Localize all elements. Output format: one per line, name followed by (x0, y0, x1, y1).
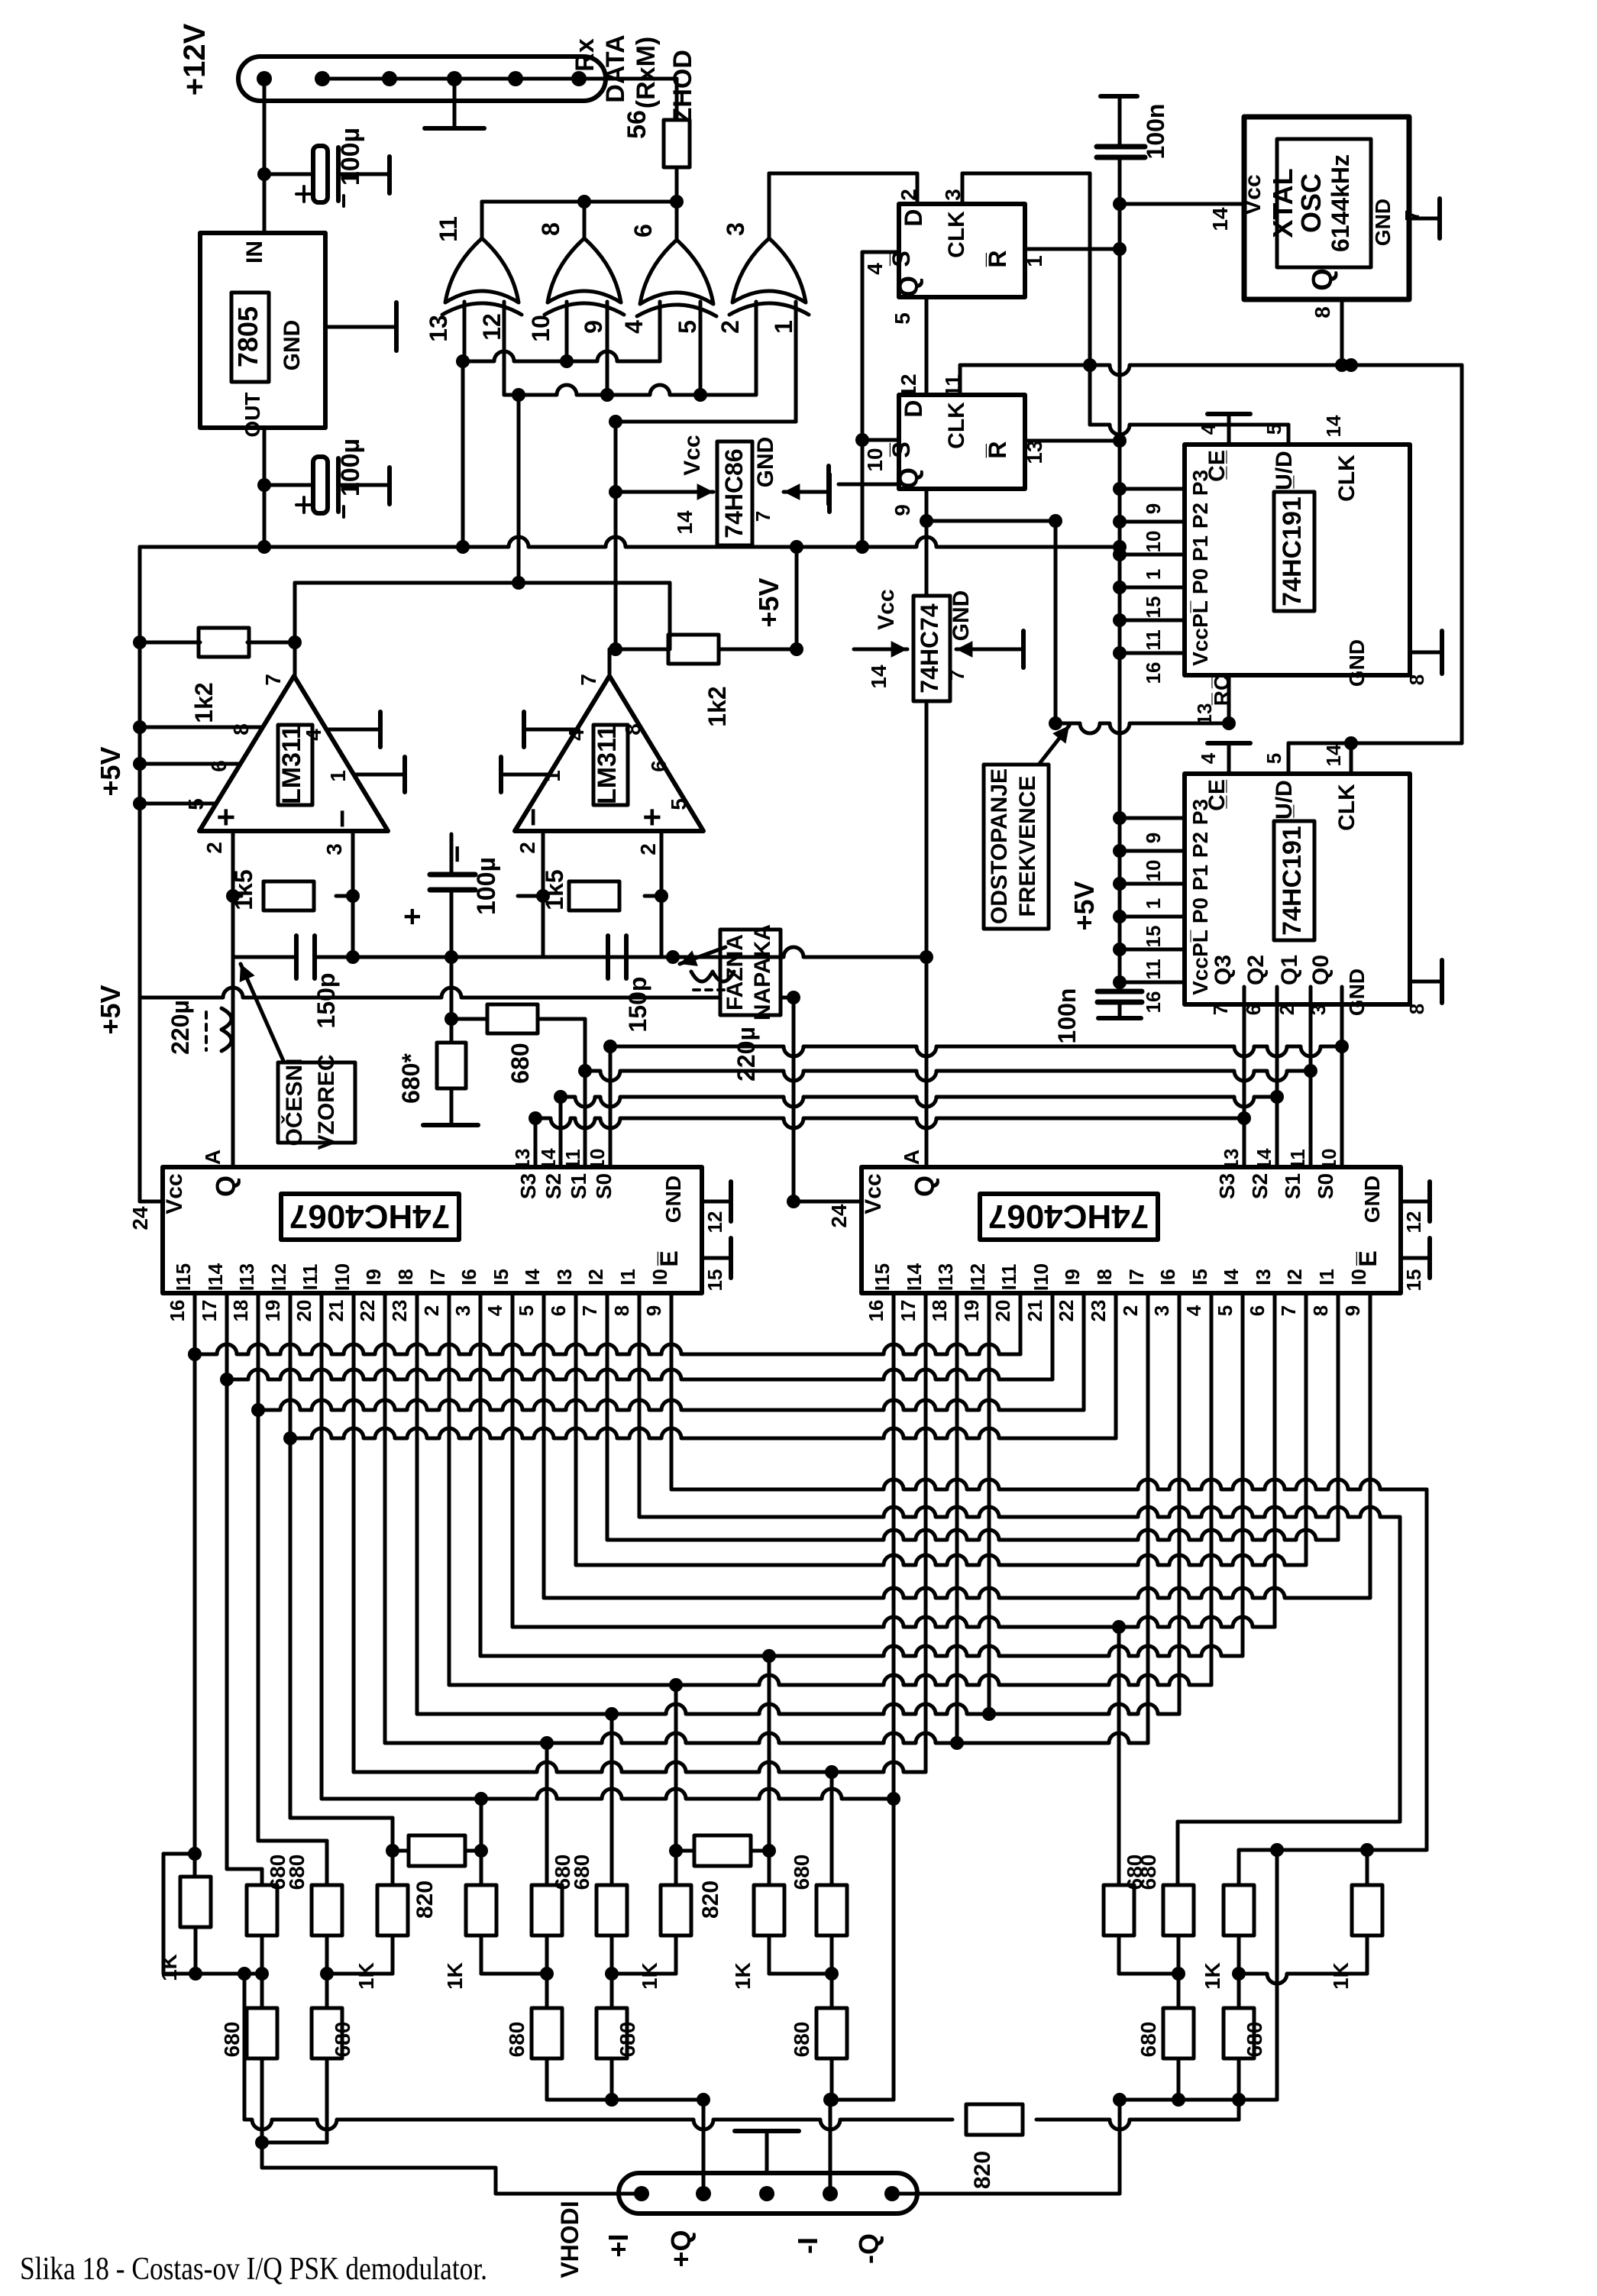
resistor 680 (532, 1885, 562, 1935)
svg-text:1K: 1K (443, 1962, 467, 1990)
svg-text:CLK: CLK (944, 402, 969, 449)
wire XTAL Q out (1340, 299, 1344, 365)
svg-text:+: + (396, 907, 429, 925)
svg-text:I9: I9 (362, 1269, 385, 1285)
svg-text:I3: I3 (1252, 1269, 1275, 1285)
ground (810, 490, 829, 494)
svg-text:6144kHz: 6144kHz (1327, 154, 1354, 252)
resistor 1K (754, 1885, 784, 1935)
svg-text:S̅: S̅ (887, 441, 915, 458)
svg-text:GND: GND (1360, 1175, 1384, 1223)
svg-text:5: 5 (891, 312, 914, 325)
svg-text:U̲/D: U̲/D (1272, 780, 1297, 820)
svg-text:E̅: E̅ (655, 1250, 683, 1266)
svg-text:100n: 100n (1053, 988, 1081, 1044)
multiplexer 74HC4067 (163, 1167, 702, 1293)
svg-text:7: 7 (946, 670, 968, 681)
wire mesh line p5 (354, 1762, 926, 1772)
wire S/CLK feed U8 (1344, 736, 1358, 750)
wire clock to U8 (1460, 365, 1464, 743)
resistor R5 680* with ground (437, 1043, 466, 1088)
svg-text:VHODI: VHODI (556, 2201, 584, 2278)
svg-text:Vcc: Vcc (874, 589, 899, 629)
svg-text:10: 10 (863, 448, 887, 471)
svg-text:13: 13 (425, 315, 452, 342)
svg-text:I0: I0 (648, 1269, 671, 1285)
svg-text:I14: I14 (204, 1263, 227, 1291)
svg-text:680: 680 (505, 2022, 529, 2058)
svg-text:24: 24 (128, 1206, 152, 1230)
svg-text:14: 14 (867, 665, 891, 689)
svg-text:1k2: 1k2 (703, 686, 731, 726)
svg-text:PL̅: PL̅ (1188, 600, 1212, 628)
svg-text:10: 10 (1142, 531, 1165, 553)
CE enable bars (1227, 414, 1231, 445)
svg-text:150p: 150p (624, 977, 651, 1033)
svg-text:GND: GND (661, 1175, 685, 1223)
svg-text:2: 2 (716, 320, 744, 334)
svg-text:+5V: +5V (753, 577, 784, 627)
svg-text:11: 11 (1142, 959, 1165, 980)
svg-text:680*: 680* (397, 1053, 425, 1104)
svg-text:18: 18 (229, 1300, 252, 1322)
svg-text:3: 3 (722, 222, 749, 236)
wire Rx data (579, 77, 677, 81)
svg-text:23: 23 (388, 1300, 411, 1322)
svg-text:3: 3 (322, 843, 346, 855)
svg-text:OSC: OSC (1295, 173, 1327, 233)
svg-text:4: 4 (863, 263, 887, 275)
svg-text:56: 56 (622, 110, 651, 139)
svg-text:Q3: Q3 (1211, 955, 1236, 985)
svg-text:820: 820 (970, 2151, 995, 2189)
svg-text:I4: I4 (1220, 1269, 1243, 1285)
svg-text:S3: S3 (516, 1173, 540, 1199)
wire drop to -Q node (1275, 1850, 1279, 2100)
svg-text:220µ: 220µ (732, 1027, 760, 1082)
svg-text:P1: P1 (1188, 535, 1212, 561)
counter 74HC191 (1185, 774, 1410, 1004)
wire +Q output network (545, 2058, 549, 2100)
svg-text:Vcc: Vcc (1240, 174, 1266, 215)
svg-text:Vcc: Vcc (162, 1173, 187, 1214)
svg-text:8: 8 (1311, 306, 1334, 319)
svg-text:3: 3 (451, 1305, 474, 1316)
svg-text:+5V: +5V (1068, 881, 1100, 930)
svg-text:17: 17 (198, 1300, 221, 1322)
wire input bus (244, 2120, 952, 2129)
ground (338, 173, 390, 176)
resistor 680 (1224, 2008, 1254, 2058)
svg-text:CLK: CLK (1334, 784, 1359, 831)
resistor 680 (1163, 1885, 1194, 1935)
svg-text:I8: I8 (1093, 1269, 1116, 1285)
svg-text:150p: 150p (312, 973, 340, 1029)
svg-text:U̲/D: U̲/D (1272, 451, 1297, 490)
svg-text:74HC86: 74HC86 (720, 448, 748, 538)
wire mesh line p15 (671, 1479, 1427, 1489)
capacitor C4 150p (231, 896, 235, 957)
svg-text:3: 3 (1150, 1305, 1173, 1316)
resistor R9 820 (676, 1849, 769, 1853)
svg-text:I13: I13 (235, 1263, 258, 1291)
xor gate 74HC86 out 11 (445, 238, 519, 302)
svg-text:1: 1 (1142, 898, 1165, 909)
resistor 1K (180, 1877, 211, 1927)
svg-text:Vcc: Vcc (861, 1173, 886, 1214)
svg-text:OČESNI: OČESNI (281, 1058, 307, 1146)
oscillator U4 XTAL OSC 6144kHz (1244, 117, 1409, 299)
svg-text:24: 24 (827, 1204, 851, 1228)
svg-text:8: 8 (610, 1305, 633, 1316)
svg-text:680: 680 (285, 1855, 309, 1890)
svg-text:I7: I7 (426, 1269, 449, 1285)
wire sample bus I1 (227, 1370, 1052, 1379)
wire right drop 1 (1425, 1489, 1429, 1850)
svg-text:14: 14 (1322, 744, 1345, 766)
svg-text:8: 8 (1405, 674, 1428, 685)
svg-text:I12: I12 (966, 1263, 989, 1291)
capacitor C6 100u (450, 834, 454, 875)
wire mesh line p7 (417, 1704, 1179, 1714)
wire S line to U7 (1090, 425, 1288, 435)
svg-text:I7: I7 (1125, 1269, 1148, 1285)
svg-text:680: 680 (1136, 1855, 1160, 1890)
svg-text:1K: 1K (354, 1962, 378, 1990)
resistor 1K (1224, 1885, 1254, 1935)
svg-text:P1: P1 (1188, 865, 1212, 891)
resistor R8 820 (393, 1849, 481, 1853)
svg-text:13: 13 (511, 1149, 534, 1171)
capacitor C3 100n with ground (1101, 94, 1137, 99)
svg-text:−: − (324, 810, 360, 829)
svg-text:74HC191: 74HC191 (1278, 826, 1307, 936)
svg-text:14: 14 (1253, 1148, 1275, 1170)
wire +5V left rail (138, 547, 142, 998)
svg-text:15: 15 (1142, 926, 1165, 948)
svg-text:1K: 1K (731, 1962, 755, 1990)
wire sample bus I0 (195, 1344, 1020, 1354)
svg-text:GND: GND (1371, 199, 1395, 246)
svg-text:CLK: CLK (944, 211, 969, 258)
wire Q3 bus (535, 1118, 1244, 1128)
wire DAC feed risers (480, 1803, 483, 1851)
svg-text:680: 680 (790, 1855, 813, 1890)
counter 74HC191 (1185, 445, 1410, 675)
note box OCESNI VZOREC with arrow (278, 1062, 355, 1143)
svg-text:I14: I14 (903, 1263, 926, 1291)
svg-text:I11: I11 (299, 1264, 322, 1291)
svg-text:R̅: R̅ (984, 250, 1011, 267)
wire +Q to CN2 (702, 2100, 706, 2194)
svg-text:S2: S2 (1248, 1173, 1272, 1199)
capacitor C2 100u (313, 457, 328, 513)
svg-text:+: + (634, 808, 670, 827)
wire left edge drop (162, 1854, 166, 1972)
svg-text:19: 19 (960, 1300, 983, 1322)
svg-text:5: 5 (1262, 753, 1285, 764)
resistor 680 (816, 1885, 847, 1935)
svg-text:13: 13 (1220, 1149, 1243, 1171)
svg-text:-Q: -Q (853, 2233, 884, 2264)
svg-text:2: 2 (516, 842, 539, 854)
connector CN2 VHODI inputs (619, 2173, 917, 2214)
ground U6 pins 4,1 (524, 728, 577, 732)
svg-text:680: 680 (1243, 2022, 1266, 2058)
ground (765, 2131, 769, 2173)
wire right drop 2 (1398, 1517, 1402, 1822)
svg-text:1K: 1K (157, 1954, 181, 1981)
svg-text:5: 5 (515, 1305, 538, 1316)
svg-text:P3: P3 (1188, 470, 1212, 496)
svg-text:11: 11 (1286, 1149, 1309, 1170)
wire Vcc to mux1 (138, 998, 142, 1201)
svg-text:100µ: 100µ (472, 857, 501, 915)
svg-text:16: 16 (166, 1300, 189, 1322)
wire U3A CLK (961, 173, 965, 204)
svg-text:7: 7 (1277, 1305, 1300, 1316)
svg-text:9: 9 (891, 504, 914, 516)
D flip-flop 74HC74 (pins D=12 CLK=11) (899, 395, 1025, 489)
svg-text:−: − (515, 808, 551, 827)
svg-text:4: 4 (564, 729, 588, 741)
svg-text:15: 15 (1402, 1269, 1425, 1292)
wire mux1 pin columns (193, 1333, 197, 1877)
resistor 1K (1352, 1885, 1382, 1935)
svg-text:Q: Q (210, 1175, 241, 1197)
svg-text:74HC4067: 74HC4067 (289, 1198, 450, 1235)
wire xor1-3 outputs join (480, 202, 484, 238)
xor gate 74HC86 out 3 (732, 238, 806, 302)
svg-text:I2: I2 (1283, 1269, 1306, 1285)
svg-text:820: 820 (698, 1880, 723, 1919)
svg-text:I12: I12 (267, 1263, 290, 1291)
svg-text:FREKVENCE: FREKVENCE (1015, 775, 1040, 917)
svg-text:680: 680 (790, 2022, 813, 2058)
svg-text:I0: I0 (1347, 1269, 1370, 1285)
wire U5 + input (231, 831, 235, 896)
svg-text:10: 10 (527, 315, 554, 342)
svg-text:(RxM): (RxM) (632, 37, 661, 108)
multiplexer 74HC4067 (862, 1167, 1401, 1293)
wire branch (920, 514, 933, 528)
capacitor C7 150p (541, 896, 545, 957)
svg-text:S1: S1 (1281, 1173, 1304, 1199)
svg-text:14: 14 (537, 1148, 560, 1170)
resistor 680 (816, 2008, 847, 2058)
svg-text:S1: S1 (567, 1173, 590, 1199)
svg-text:9: 9 (1142, 503, 1165, 514)
svg-text:18: 18 (928, 1300, 951, 1322)
svg-text:P2: P2 (1188, 832, 1212, 858)
resistor 680 (247, 1885, 277, 1935)
svg-text:P0: P0 (1188, 568, 1212, 594)
wire mesh line p14 (639, 1507, 1400, 1517)
wire mesh line p6 (385, 1733, 1148, 1743)
svg-text:21: 21 (1023, 1300, 1046, 1322)
svg-text:23: 23 (1087, 1300, 1110, 1322)
svg-text:1K: 1K (638, 1962, 661, 1990)
svg-text:8: 8 (621, 723, 645, 736)
svg-text:5: 5 (1214, 1305, 1237, 1316)
wire U6 - input (541, 831, 545, 896)
wire DAC summing nodes (260, 1935, 264, 2008)
svg-text:R̅: R̅ (984, 441, 1011, 458)
wire mesh line p11 (544, 1588, 1370, 1598)
wire sample bus I3 (290, 1428, 1116, 1438)
wire U1 OUT to +5V rail (263, 428, 267, 547)
svg-text:A: A (900, 1150, 923, 1165)
svg-text:680: 680 (506, 1043, 534, 1083)
svg-text:5: 5 (1262, 424, 1285, 435)
wire drop to DAC (1176, 1822, 1180, 1889)
resistor 680 (312, 1885, 342, 1935)
svg-text:LM311: LM311 (593, 725, 622, 804)
svg-text:I9: I9 (1061, 1269, 1084, 1285)
svg-text:14: 14 (1208, 207, 1232, 231)
wire return line -Q (1178, 1820, 1400, 1824)
svg-text:74HC74: 74HC74 (916, 603, 943, 694)
svg-text:11: 11 (561, 1149, 584, 1170)
wire mesh line p8 (449, 1675, 1211, 1685)
svg-text:I1: I1 (616, 1269, 639, 1285)
note box ODSTOPANJE FREKVENCE with arrow (984, 765, 1049, 929)
svg-text:P2: P2 (1188, 503, 1212, 529)
wire clock net (960, 365, 1462, 375)
comparator LM311 (515, 676, 703, 831)
regulator U1 7805 (200, 233, 325, 428)
svg-text:4: 4 (1197, 752, 1220, 764)
svg-text:P0: P0 (1188, 897, 1212, 923)
svg-text:9: 9 (580, 320, 607, 334)
svg-text:2: 2 (897, 189, 920, 201)
svg-text:12: 12 (1402, 1211, 1425, 1234)
resistor 680 (596, 2008, 627, 2058)
svg-text:2: 2 (202, 842, 226, 854)
resistor 1K (377, 1885, 408, 1935)
comparator LM311 (199, 676, 388, 831)
svg-text:820: 820 (412, 1880, 438, 1919)
wire to +5V rail (461, 361, 465, 547)
svg-text:I15: I15 (871, 1263, 894, 1291)
svg-text:12: 12 (897, 374, 920, 397)
resistor 680 (247, 2008, 277, 2058)
svg-text:7: 7 (1209, 1004, 1232, 1015)
svg-text:Q: Q (909, 1175, 940, 1197)
wire Q outputs to mux2 S pins (1243, 987, 1246, 1167)
xor gate 74HC86 out 6 (640, 240, 713, 304)
svg-text:1K: 1K (1201, 1962, 1224, 1990)
wire to comparator stage 2 (614, 422, 618, 649)
svg-text:10: 10 (586, 1149, 609, 1171)
svg-text:Q2: Q2 (1243, 955, 1269, 985)
svg-text:Vcc: Vcc (1188, 628, 1212, 666)
svg-text:22: 22 (356, 1300, 379, 1322)
svg-text:P3: P3 (1188, 799, 1212, 825)
svg-text:19: 19 (261, 1300, 284, 1322)
svg-text:5: 5 (667, 798, 690, 810)
svg-text:7: 7 (261, 674, 285, 686)
svg-text:+: + (208, 808, 244, 827)
wire mesh line p12 (576, 1555, 1306, 1565)
svg-text:I1: I1 (1315, 1269, 1338, 1285)
resistor R6 680 (445, 1012, 458, 1026)
svg-text:680: 680 (220, 2022, 244, 2058)
svg-text:Q: Q (893, 276, 924, 297)
svg-text:Slika 18 - Costas-ov I/Q PSK d: Slika 18 - Costas-ov I/Q PSK demodulator… (20, 2252, 487, 2287)
xor gate 74HC86 out 8 (548, 238, 621, 302)
ground (453, 79, 457, 128)
resistor R10 820 (966, 2104, 1023, 2135)
svg-text:Vcc: Vcc (680, 435, 705, 475)
wire S-bar net (862, 251, 899, 254)
svg-text:14: 14 (1322, 415, 1345, 437)
svg-text:1k2: 1k2 (190, 682, 218, 723)
svg-text:4: 4 (483, 1305, 506, 1316)
svg-text:680: 680 (331, 2022, 354, 2058)
svg-text:GND: GND (1345, 639, 1369, 687)
svg-text:Q1: Q1 (1277, 955, 1302, 985)
svg-text:9: 9 (1341, 1305, 1364, 1316)
svg-text:15: 15 (1142, 597, 1165, 619)
svg-text:17: 17 (897, 1300, 920, 1322)
wire +12V to U1 IN (263, 79, 267, 233)
wire Q0 bus (610, 1046, 1342, 1056)
svg-text:OUT: OUT (241, 392, 264, 437)
wire Q2 bus (561, 1097, 1277, 1107)
svg-text:74HC191: 74HC191 (1278, 496, 1307, 606)
wire to comparator stage (517, 395, 521, 583)
svg-text:GND: GND (949, 590, 974, 642)
wire node A to mux1 (231, 957, 235, 1167)
svg-text:8: 8 (1309, 1305, 1332, 1316)
svg-text:IN: IN (242, 241, 267, 264)
wire U3B CLK riser (959, 365, 962, 395)
svg-text:D: D (900, 399, 927, 417)
svg-text:4: 4 (302, 729, 325, 741)
svg-text:220µ: 220µ (166, 1000, 194, 1055)
ground (338, 483, 390, 487)
svg-text:8: 8 (537, 222, 564, 236)
svg-text:22: 22 (1055, 1300, 1078, 1322)
svg-text:+12V: +12V (178, 23, 212, 95)
capacitor C9 100n with ground (1098, 989, 1142, 994)
svg-text:GND: GND (1345, 969, 1369, 1016)
note box FAZNA NAPAKA with arrow (720, 930, 781, 1015)
svg-text:680: 680 (570, 1855, 593, 1890)
wire feedback line (293, 583, 297, 642)
svg-text:11: 11 (435, 216, 462, 242)
svg-text:4: 4 (1197, 423, 1220, 435)
wire U3B Q to mux2 A (925, 489, 929, 1167)
svg-text:I10: I10 (331, 1263, 354, 1291)
wire mesh line p4 (322, 1789, 894, 1799)
svg-text:+I: +I (603, 2233, 634, 2257)
svg-text:20: 20 (991, 1300, 1014, 1322)
svg-text:VZOREC: VZOREC (314, 1054, 339, 1150)
svg-text:5: 5 (674, 320, 701, 334)
svg-text:1: 1 (1023, 255, 1046, 267)
svg-text:I6: I6 (457, 1269, 480, 1285)
ground U1 GND (325, 325, 396, 329)
svg-text:D: D (900, 209, 927, 226)
svg-text:6: 6 (1246, 1305, 1269, 1316)
wire xor input bus A (463, 351, 660, 361)
svg-text:15: 15 (703, 1269, 726, 1292)
svg-text:I4: I4 (521, 1269, 544, 1285)
wire sample bus I2 (258, 1400, 1084, 1410)
wire mux2 pin columns (892, 1333, 896, 2100)
